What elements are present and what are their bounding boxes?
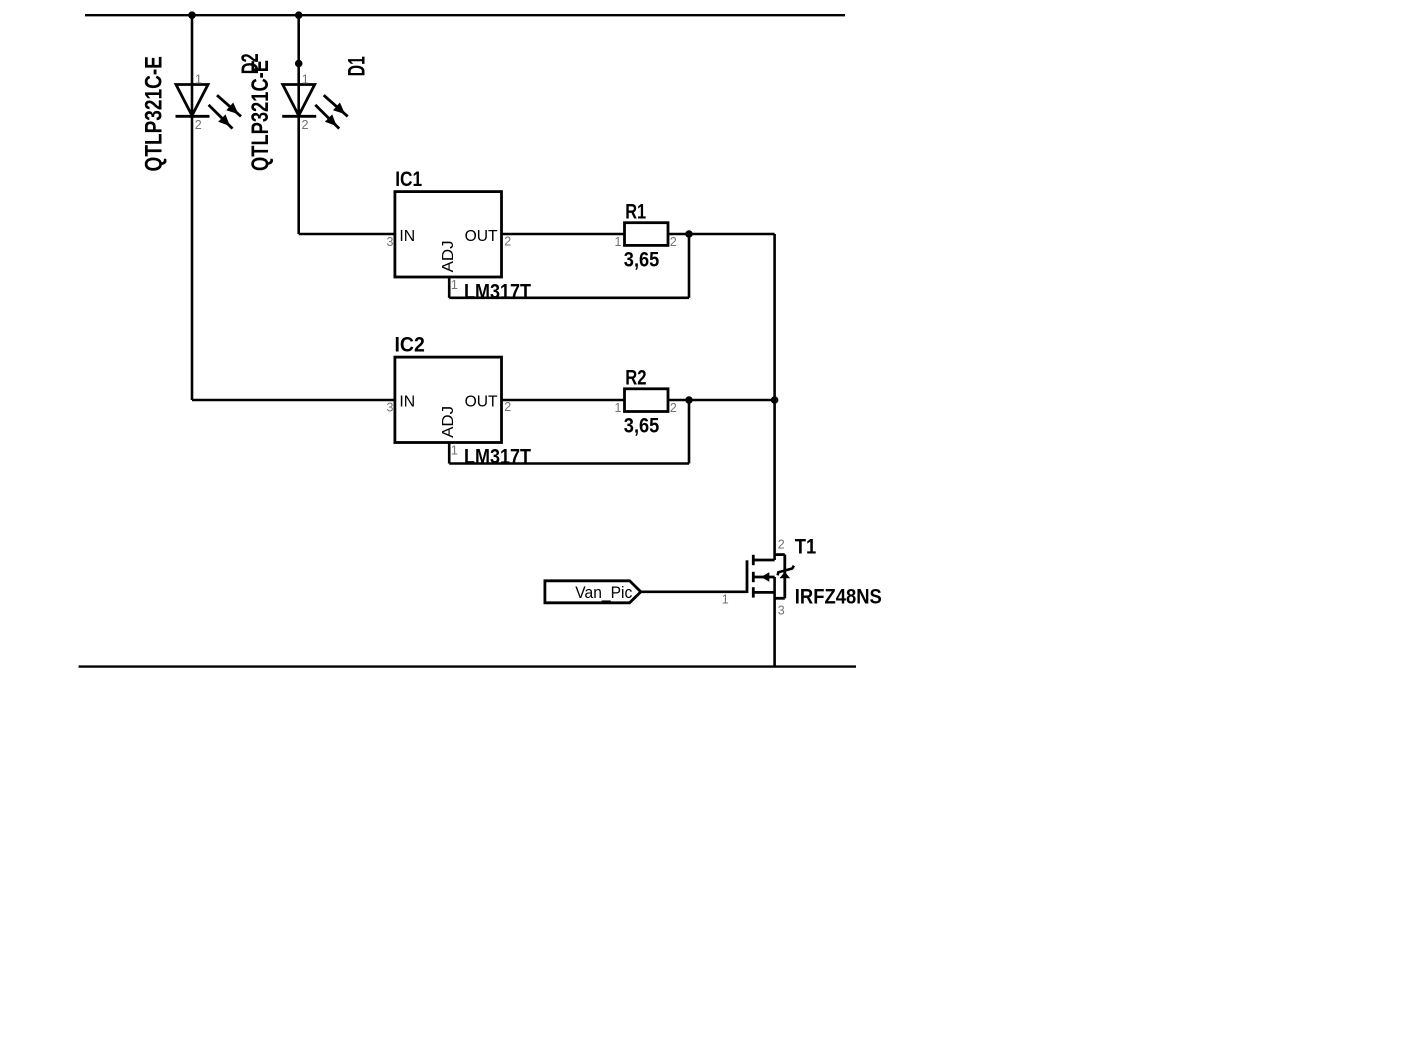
net flag Van_Pic bbox=[545, 581, 641, 603]
svg-text:ADJ: ADJ bbox=[440, 406, 457, 438]
svg-text:1: 1 bbox=[722, 593, 729, 607]
wire bottom rail bbox=[79, 665, 856, 667]
wire R1 feedback horizontal to IC1 ADJ bbox=[449, 296, 689, 299]
svg-text:1: 1 bbox=[615, 235, 622, 249]
wire Van_Pic to T1 gate bbox=[641, 590, 747, 593]
svg-text:3,65: 3,65 bbox=[624, 414, 660, 438]
wire R1 to main vertical bbox=[668, 233, 775, 236]
wire D2 to IC2 IN bbox=[192, 399, 395, 402]
svg-text:1: 1 bbox=[451, 278, 458, 292]
svg-text:OUT: OUT bbox=[465, 393, 498, 410]
svg-text:1: 1 bbox=[451, 443, 458, 457]
LED D1 bbox=[282, 85, 348, 129]
svg-text:2: 2 bbox=[670, 235, 677, 249]
svg-text:1: 1 bbox=[195, 73, 202, 87]
IC2 LM317T regulator box bbox=[395, 357, 502, 442]
wire IC1 ADJ stub bbox=[448, 277, 451, 298]
wire top power rail bbox=[85, 14, 845, 16]
resistor R1 bbox=[625, 223, 669, 246]
svg-text:LM317T: LM317T bbox=[464, 445, 531, 469]
wire D1 to IC1 IN bbox=[299, 233, 395, 236]
svg-text:IC1: IC1 bbox=[395, 167, 422, 191]
svg-text:IC2: IC2 bbox=[395, 333, 425, 357]
wire T1 source and bulk to bottom rail bbox=[773, 577, 776, 667]
svg-text:QTLP321C-E: QTLP321C-E bbox=[140, 56, 167, 171]
svg-text:1: 1 bbox=[302, 73, 309, 87]
svg-text:IN: IN bbox=[399, 393, 415, 410]
junction dot on D1 anode wire bbox=[295, 60, 303, 68]
resistor R2 bbox=[625, 389, 669, 412]
wire IC2 ADJ stub bbox=[448, 443, 451, 464]
transistor T1 IRFZ48NS bbox=[747, 555, 794, 599]
svg-text:2: 2 bbox=[504, 234, 511, 248]
svg-text:OUT: OUT bbox=[465, 228, 498, 245]
junction dot R1 output bbox=[685, 230, 693, 238]
svg-text:2: 2 bbox=[302, 118, 309, 132]
wire R1 feedback vertical bbox=[688, 234, 691, 298]
svg-text:T1: T1 bbox=[795, 535, 817, 559]
wire D2 vertical from top rail to IC2 row bbox=[191, 15, 194, 400]
svg-text:IN: IN bbox=[399, 228, 415, 245]
svg-text:3: 3 bbox=[387, 401, 394, 415]
svg-text:R2: R2 bbox=[625, 366, 646, 390]
svg-text:Van_Pic: Van_Pic bbox=[575, 583, 632, 602]
svg-text:2: 2 bbox=[778, 537, 785, 551]
svg-text:1: 1 bbox=[615, 401, 622, 415]
wire main vertical to MOSFET drain bbox=[773, 234, 776, 560]
wire IC2 OUT to R2 bbox=[502, 399, 625, 402]
wire R2 feedback vertical bbox=[688, 400, 691, 464]
svg-text:2: 2 bbox=[195, 118, 202, 132]
IC1 LM317T regulator box bbox=[395, 192, 502, 277]
svg-text:3,65: 3,65 bbox=[624, 247, 660, 271]
svg-text:QTLP321C-E: QTLP321C-E bbox=[247, 60, 274, 171]
svg-text:2: 2 bbox=[504, 400, 511, 414]
wire D1 vertical from top rail to IC1 row bbox=[297, 15, 300, 234]
wire R2 to main vertical bbox=[668, 399, 775, 402]
junction dot R2 output bbox=[685, 396, 693, 404]
svg-text:D1: D1 bbox=[344, 56, 371, 76]
svg-text:3: 3 bbox=[778, 603, 785, 617]
junction dot top rail at D2 bbox=[188, 11, 196, 19]
svg-text:3: 3 bbox=[387, 235, 394, 249]
svg-text:2: 2 bbox=[670, 401, 677, 415]
junction dot main vertical at R2 row bbox=[771, 396, 779, 404]
wire IC1 OUT to R1 bbox=[502, 233, 625, 236]
junction dot top rail at D1 bbox=[295, 11, 303, 19]
svg-text:IRFZ48NS: IRFZ48NS bbox=[795, 584, 882, 608]
svg-text:R1: R1 bbox=[625, 199, 646, 223]
svg-text:LM317T: LM317T bbox=[464, 279, 531, 303]
svg-text:ADJ: ADJ bbox=[440, 240, 457, 272]
wire R2 feedback horizontal to IC2 ADJ bbox=[449, 462, 689, 465]
LED D2 bbox=[176, 85, 242, 129]
